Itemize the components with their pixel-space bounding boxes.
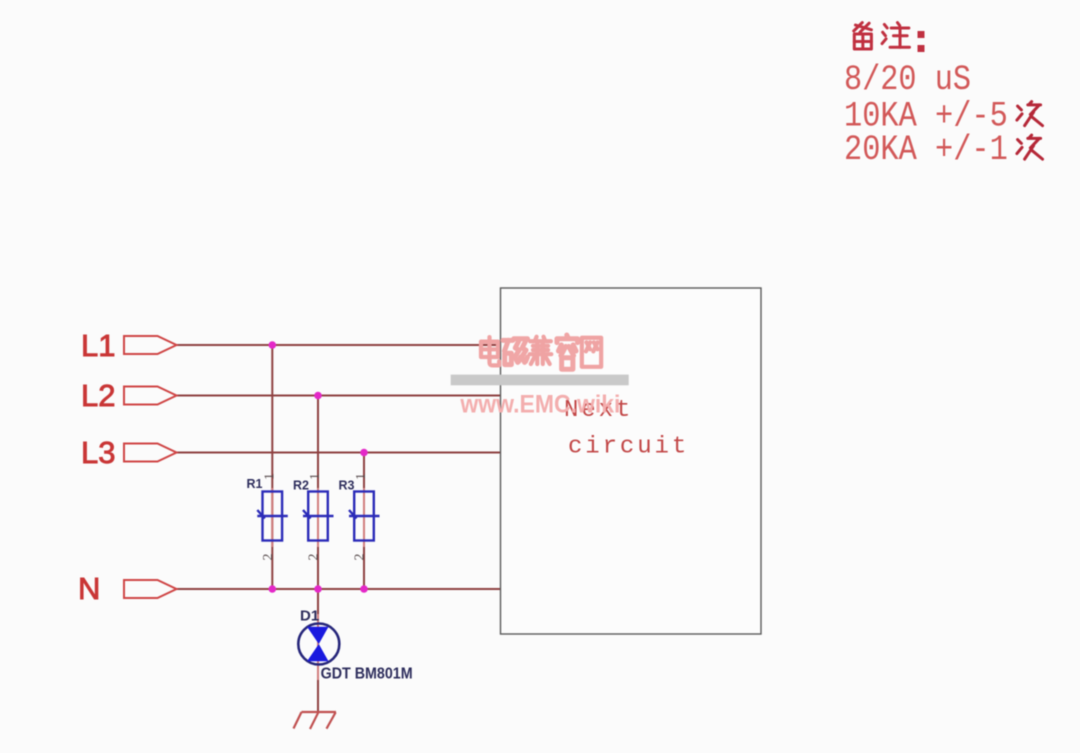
svg-text:circuit: circuit <box>568 434 689 461</box>
svg-text:1: 1 <box>262 473 277 480</box>
svg-text:R3: R3 <box>339 478 355 492</box>
svg-text:N: N <box>78 571 100 606</box>
svg-text:www.EMC.wiki: www.EMC.wiki <box>459 391 620 419</box>
svg-text:L2: L2 <box>81 378 115 413</box>
svg-text:L1: L1 <box>81 328 115 363</box>
svg-text:2: 2 <box>261 554 276 561</box>
svg-text:1: 1 <box>308 473 323 480</box>
svg-text:L3: L3 <box>81 435 115 470</box>
svg-text:20KA +/-1: 20KA +/-1 <box>844 130 1008 170</box>
svg-text:1: 1 <box>354 473 369 480</box>
svg-text:R2: R2 <box>293 478 309 492</box>
svg-text:2: 2 <box>353 554 368 561</box>
svg-text:GDT BM801M: GDT BM801M <box>321 666 413 683</box>
svg-text:8/20 uS: 8/20 uS <box>844 60 971 100</box>
svg-text:D1: D1 <box>300 608 319 625</box>
svg-text:2: 2 <box>307 554 322 561</box>
svg-text:R1: R1 <box>247 477 263 491</box>
